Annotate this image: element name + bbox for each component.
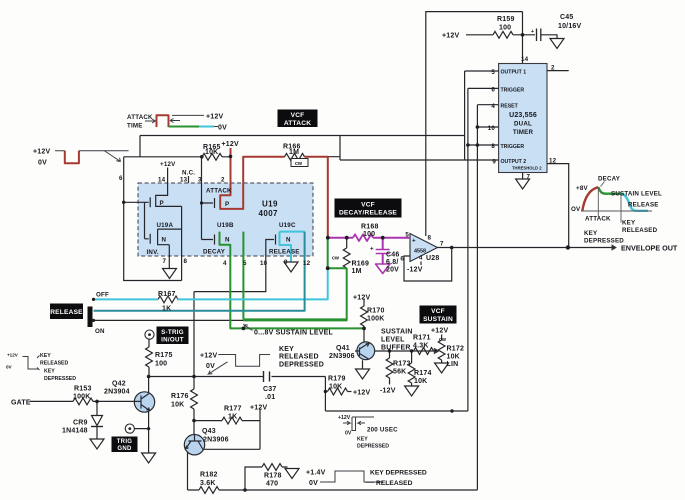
svg-text:5: 5 [491,69,495,76]
svg-text:8: 8 [428,235,432,242]
svg-text:12: 12 [549,158,557,165]
svg-text:RELEASE: RELEASE [628,202,659,209]
svg-text:S-TRIG: S-TRIG [161,329,184,336]
svg-text:+12V: +12V [353,295,370,302]
svg-text:+12V: +12V [431,328,448,335]
svg-text:6.8/: 6.8/ [386,259,398,266]
svg-text:4: 4 [491,103,495,110]
svg-text:U19C: U19C [279,222,296,229]
svg-text:1K: 1K [228,414,237,421]
svg-text:KEY: KEY [44,369,55,375]
svg-text:3.6K: 3.6K [200,480,216,487]
svg-text:SUSTAIN: SUSTAIN [381,329,413,336]
svg-text:IN/OUT: IN/OUT [161,336,184,343]
svg-text:1M: 1M [289,149,299,156]
svg-text:R169: R169 [352,261,370,268]
svg-text:+12V: +12V [222,141,239,148]
svg-text:RELEASED: RELEASED [40,361,69,367]
svg-text:+: + [531,29,534,35]
svg-text:U23,556: U23,556 [509,112,537,119]
svg-text:R175: R175 [155,352,173,359]
svg-text:SUSTAIN LEVEL: SUSTAIN LEVEL [611,191,662,198]
svg-text:4.3K: 4.3K [413,343,429,350]
svg-text:14: 14 [158,177,166,184]
svg-text:TIMER: TIMER [513,129,534,136]
svg-text:VCF: VCF [291,112,305,119]
svg-text:2N3906: 2N3906 [329,353,355,360]
svg-text:10K: 10K [447,354,460,361]
svg-text:R170: R170 [367,308,385,315]
svg-text:+12V: +12V [250,405,267,412]
svg-text:GATE: GATE [11,400,31,407]
svg-text:+12V: +12V [33,149,50,156]
svg-text:cw: cw [439,337,447,343]
svg-text:2N3906: 2N3906 [203,437,229,444]
svg-text:+12V: +12V [338,415,351,421]
svg-text:0V: 0V [345,431,352,437]
svg-text:OUTPUT 1: OUTPUT 1 [501,70,527,76]
svg-text:R168: R168 [361,224,379,231]
svg-text:2N3904: 2N3904 [104,389,130,396]
svg-text:cw: cw [295,161,303,167]
svg-text:6: 6 [400,256,404,263]
svg-text:RELEASED: RELEASED [376,480,413,487]
svg-text:INV.: INV. [147,249,159,256]
svg-text:4007: 4007 [259,209,279,218]
svg-text:ENVELOPE OUT: ENVELOPE OUT [621,244,678,253]
svg-text:R179: R179 [328,376,346,383]
svg-text:13: 13 [180,177,188,184]
svg-text:OUTPUT 2: OUTPUT 2 [501,159,527,165]
svg-text:LIN: LIN [447,361,459,368]
svg-text:100: 100 [499,25,511,32]
svg-text:0V: 0V [206,363,215,370]
svg-text:DEPRESSED: DEPRESSED [357,444,389,450]
svg-text:2: 2 [551,65,555,72]
svg-text:100K: 100K [367,316,385,323]
svg-text:C45: C45 [560,14,573,21]
svg-text:TRIGGER: TRIGGER [501,144,525,150]
svg-text:CR9: CR9 [73,420,88,427]
svg-text:RELEASED: RELEASED [279,354,319,361]
svg-text:ON: ON [95,328,105,335]
svg-text:5: 5 [405,232,409,239]
svg-text:10K: 10K [205,149,218,156]
svg-text:R178: R178 [264,473,282,480]
svg-text:KEY: KEY [40,353,51,359]
svg-text:8: 8 [184,258,188,265]
svg-text:5: 5 [243,260,247,267]
svg-text:+12V: +12V [206,114,223,121]
svg-text:KEY: KEY [584,230,598,237]
svg-text:N: N [162,237,167,244]
svg-text:ATTACK: ATTACK [585,216,611,223]
svg-text:R171: R171 [413,335,431,342]
svg-text:10: 10 [260,260,268,267]
svg-text:7: 7 [440,241,444,248]
svg-text:DECAY/RELEASE: DECAY/RELEASE [339,210,397,217]
svg-text:10: 10 [488,125,496,132]
svg-text:8: 8 [491,143,495,150]
svg-text:R153: R153 [74,386,92,393]
svg-text:RELEASE: RELEASE [269,249,300,256]
svg-text:0V: 0V [38,160,47,167]
svg-text:Q43: Q43 [202,428,216,435]
svg-text:U19: U19 [262,200,278,209]
svg-text:DEPRESSED: DEPRESSED [44,376,76,382]
svg-text:+: + [412,238,416,245]
svg-text:3: 3 [198,177,202,184]
svg-text:DUAL: DUAL [514,121,532,128]
svg-text:R159: R159 [497,16,515,23]
svg-text:GND: GND [117,446,132,452]
svg-text:U19A: U19A [157,222,174,229]
svg-text:10K: 10K [329,384,342,391]
svg-text:.01: .01 [265,394,275,401]
svg-text:RESET: RESET [501,104,519,110]
svg-text:U28: U28 [426,255,439,262]
svg-text:470: 470 [266,481,278,488]
svg-text:R182: R182 [200,472,218,479]
svg-text:20V: 20V [386,267,399,274]
svg-text:1N4148: 1N4148 [62,428,88,435]
svg-text:THRESHOLD 2: THRESHOLD 2 [512,166,542,171]
svg-text:9: 9 [492,159,496,166]
svg-text:BUFFER: BUFFER [381,345,411,352]
svg-text:2: 2 [221,177,225,184]
svg-text:1K: 1K [162,306,171,313]
svg-text:+8V: +8V [576,185,588,192]
svg-text:ATTACK: ATTACK [284,120,311,127]
svg-text:-12V: -12V [380,388,396,395]
svg-text:OFF: OFF [96,292,109,299]
svg-text:SUSTAIN: SUSTAIN [423,316,453,323]
svg-text:-12V: -12V [407,267,423,274]
svg-text:+: + [370,246,374,253]
svg-text:56K: 56K [393,369,406,376]
svg-text:VCF: VCF [361,202,375,209]
svg-text:Q42: Q42 [112,381,126,388]
svg-text:7: 7 [163,258,167,265]
svg-text:N: N [286,237,291,244]
svg-text:0...8V SUSTAIN LEVEL: 0...8V SUSTAIN LEVEL [254,330,333,337]
svg-text:DECAY: DECAY [598,176,621,183]
svg-text:ATTACK: ATTACK [206,188,232,195]
svg-text:C37: C37 [263,386,276,393]
svg-text:RELEASE: RELEASE [50,309,83,316]
svg-text:LEVEL: LEVEL [381,337,405,344]
svg-text:KEY: KEY [279,346,294,353]
svg-text:R173: R173 [393,361,411,368]
svg-text:6: 6 [119,175,123,182]
svg-text:+12V: +12V [160,161,176,168]
svg-text:1M: 1M [352,268,362,275]
svg-text:P: P [160,200,164,207]
svg-text:+12V: +12V [442,33,459,40]
svg-text:+12V: +12V [7,353,19,358]
svg-text:100: 100 [155,361,167,368]
svg-text:KEY: KEY [622,220,636,227]
svg-text:100: 100 [363,231,375,238]
svg-text:TIME: TIME [127,123,143,130]
svg-text:12: 12 [303,260,311,267]
svg-text:OV: OV [571,206,581,213]
svg-text:TRIG: TRIG [117,439,133,445]
svg-text:P: P [225,201,229,208]
svg-text:+12V: +12V [353,390,370,397]
svg-text:DECAY: DECAY [203,249,226,256]
svg-text:0V: 0V [218,125,227,132]
svg-text:10K: 10K [171,402,184,409]
svg-text:10K: 10K [414,378,427,385]
svg-text:+12V: +12V [200,353,217,360]
svg-text:4: 4 [419,255,423,262]
svg-text:200 USEC: 200 USEC [367,427,398,434]
svg-text:N: N [225,237,230,244]
svg-text:cw: cw [332,256,340,262]
svg-text:R167: R167 [158,291,176,298]
svg-text:DEPRESSED: DEPRESSED [279,362,324,369]
svg-text:U19B: U19B [217,222,234,229]
svg-text:VCF: VCF [431,308,445,315]
svg-text:TRIGGER: TRIGGER [501,88,525,94]
svg-text:R177: R177 [224,406,242,413]
svg-text:R172: R172 [447,346,465,353]
svg-text:C46: C46 [386,252,399,259]
svg-text:KEY DEPRESSED: KEY DEPRESSED [370,470,427,477]
svg-text:6: 6 [491,87,495,94]
svg-text:100K: 100K [73,394,91,401]
svg-text:4: 4 [223,260,227,267]
svg-text:10/16V: 10/16V [558,23,582,30]
svg-text:Q41: Q41 [336,345,350,352]
svg-text:9: 9 [284,259,288,266]
svg-text:R176: R176 [171,393,189,400]
svg-text:14: 14 [521,56,529,63]
svg-text:7: 7 [527,174,531,181]
svg-text:0V: 0V [309,480,318,487]
svg-text:R174: R174 [414,370,432,377]
svg-text:ATTACK: ATTACK [127,114,153,121]
svg-text:N.C.: N.C. [182,170,195,177]
svg-text:0V: 0V [6,365,13,370]
svg-text:DEPRESSED: DEPRESSED [584,238,624,245]
svg-text:RELEASED: RELEASED [622,227,658,234]
svg-text:+1.4V: +1.4V [306,470,326,477]
svg-text:KEY: KEY [357,437,368,443]
